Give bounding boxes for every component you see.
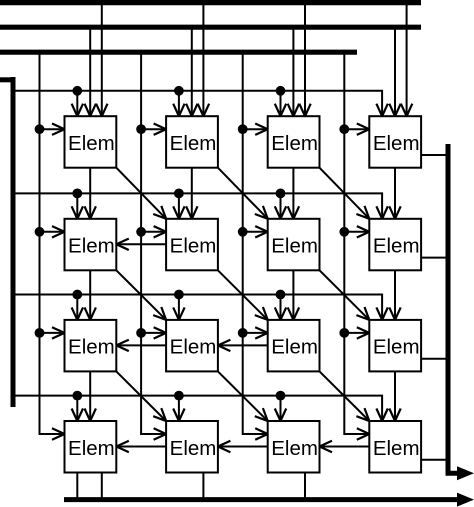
- wire: left input arrow into Elem row3 col3: [243, 332, 267, 334]
- arrowhead: into Elem row2 col4 top: [389, 206, 400, 219]
- wire: column 3 input line from bus 3 with elbow into Elem row4 col3 left: [243, 52, 267, 434]
- svg-text:Elem: Elem: [170, 235, 217, 258]
- junction dot: broadcast line row 3 col 1: [72, 290, 82, 300]
- wire: left input arrow into Elem row2 col3: [243, 231, 267, 233]
- wire: bus 1 feed down into Elem row1 col2: [202, 3, 204, 117]
- arrowhead: into Elem row3 col4 top: [389, 307, 400, 320]
- arrowhead: leftward into Elem row2 col1 right: [116, 239, 129, 250]
- processing element Elem row1 col3: [268, 116, 320, 168]
- arrowhead: broadcast into Elem row1 col1 top: [72, 104, 83, 117]
- wire: Elem row1 col4 right output to right bus: [421, 154, 448, 156]
- arrowhead: diagonal into Elem row4 col3 corner: [255, 408, 268, 421]
- arrowhead: diagonal into Elem row2 col4 corner: [356, 206, 369, 219]
- arrowhead: column 4 input into Elem row4 col4 left: [357, 428, 370, 439]
- bus: bottom horizontal output bus: [64, 497, 458, 502]
- wire: diagonal from Elem row3 col1 to Elem row4 col2: [116, 371, 166, 421]
- wire: diagonal from Elem row1 col3 to Elem row2 col4: [320, 168, 370, 219]
- junction dot: broadcast line row 2 col 2: [174, 189, 184, 199]
- arrowhead: leftward into Elem row4 col2 right: [218, 441, 231, 452]
- wire: leftward link from Elem row2 col2 to Elem row2 col1: [117, 243, 166, 245]
- wire: left input arrow into Elem row1 col3: [243, 128, 267, 130]
- wire: tap from row 4 broadcast line down into Elem row4 col3: [280, 396, 282, 421]
- arrowhead: diagonal into Elem row3 col3 corner: [255, 307, 268, 320]
- svg-text:Elem: Elem: [68, 336, 115, 359]
- arrowhead: diagonal into Elem row4 col4 corner: [356, 408, 369, 421]
- processing element Elem row1 col1: [65, 116, 117, 168]
- wire: bus 1 feed down into Elem row1 col4: [406, 3, 408, 117]
- junction dot: broadcast line row 4 col 1: [72, 391, 82, 401]
- arrowhead: bus 2 feed into Elem row1 col3 top: [288, 104, 299, 117]
- junction dot: column 4 line row 2: [339, 227, 349, 237]
- wire: left input arrow into Elem row3 col1: [40, 332, 64, 334]
- junction dot: broadcast line row 3 col 2: [174, 290, 184, 300]
- svg-text:Elem: Elem: [271, 132, 318, 155]
- arrowhead: leftward into Elem row4 col1 right: [116, 441, 129, 452]
- wire: Elem row2 col1 bottom to Elem row3 col1 top: [89, 270, 91, 320]
- junction dot: broadcast line row 4 col 3: [276, 391, 286, 401]
- arrowhead: broadcast into Elem row2 col3 top: [275, 206, 286, 219]
- wire: left input arrow into Elem row2 col4: [344, 231, 368, 233]
- arrowhead: column 2 input into Elem row4 col2 left: [154, 428, 167, 439]
- processing element Elem row4 col4: [369, 421, 421, 473]
- arrowhead: broadcast into Elem row4 col2 top: [173, 409, 184, 422]
- wire: tap from row 1 broadcast line down into Elem row1 col1: [76, 91, 78, 116]
- arrowhead: broadcast into Elem row3 col2 top: [173, 307, 184, 320]
- junction dot: column 3 line row 1: [238, 124, 248, 134]
- bus: right vertical output bus: [448, 144, 458, 473]
- wire: column 4 input line from bus 3 with elbow into Elem row4 col4 left: [344, 52, 368, 434]
- arrowhead: bus 2 feed into Elem row1 col1 top: [85, 104, 96, 117]
- arrowhead: broadcast into Elem row3 col1 top: [72, 307, 83, 320]
- wire: bus 2 feed down into Elem row1 col4: [394, 27, 396, 116]
- arrowhead: left input into Elem row2 col2: [154, 226, 167, 237]
- wire: bus 1 feed down into Elem row1 col3: [304, 3, 306, 117]
- arrowhead: left input into Elem row1 col3: [255, 124, 268, 135]
- wire: Elem row2 col3 bottom to Elem row3 col3 top: [292, 270, 294, 320]
- junction dot: broadcast line row 3 col 3: [276, 290, 286, 300]
- wire: diagonal from Elem row1 col2 to Elem row2 col3: [218, 168, 268, 219]
- wire: Elem row1 col1 bottom to Elem row2 col1 top: [89, 168, 91, 219]
- arrowhead: leftward into Elem row3 col1 right: [116, 340, 129, 351]
- arrowhead: broadcast into Elem row2 col1 top: [72, 206, 83, 219]
- wire: tap from row 2 broadcast line down into Elem row2 col3: [280, 193, 282, 218]
- wire: Elem row2 col4 bottom to Elem row3 col4 top: [394, 270, 396, 320]
- wire: leftward link from Elem row3 col2 to Elem row3 col1: [117, 344, 166, 346]
- arrowhead: broadcast into Elem row1 col2 top: [173, 104, 184, 117]
- wire: bus 2 feed down into Elem row1 col1: [89, 27, 91, 116]
- arrowhead: left input into Elem row2 col4: [357, 226, 370, 237]
- arrowhead: diagonal into Elem row2 col3 corner: [255, 206, 268, 219]
- wire: leftward link from Elem row4 col3 to Elem row4 col2: [219, 446, 268, 448]
- wire: left input arrow into Elem row3 col4: [344, 332, 368, 334]
- arrowhead: row 4 broadcast into Elem row4 col4 top: [376, 409, 387, 422]
- junction dot: column 2 line row 2: [136, 227, 146, 237]
- arrowhead: row 2 broadcast into Elem row2 col4 top: [376, 206, 387, 219]
- processing element Elem row4 col3: [268, 421, 320, 473]
- junction dot: broadcast line row 4 col 2: [174, 391, 184, 401]
- arrowhead: into Elem row3 col1 top: [85, 307, 96, 320]
- arrowhead: column 3 input into Elem row4 col3 left: [255, 428, 268, 439]
- wire: leftward link from Elem row4 col2 to Elem row4 col1: [117, 446, 166, 448]
- wire: leftward link from Elem row3 col3 to Elem row3 col2: [219, 344, 268, 346]
- svg-text:Elem: Elem: [170, 336, 217, 359]
- wire: tap from row 3 broadcast line down into Elem row3 col1: [76, 295, 78, 320]
- arrowhead: into Elem row2 col2 top: [186, 206, 197, 219]
- arrowhead: left input into Elem row3 col2: [154, 327, 167, 338]
- wire: left input arrow into Elem row1 col1: [40, 128, 64, 130]
- arrowhead: diagonal into Elem row3 col4 corner: [356, 307, 369, 320]
- svg-text:Elem: Elem: [373, 437, 420, 460]
- junction dot: column 1 line row 3: [35, 328, 45, 338]
- arrowhead: diagonal into Elem row2 col2 corner: [153, 206, 166, 219]
- wire: tap from row 4 broadcast line down into Elem row4 col1: [76, 396, 78, 421]
- wire: column 1 input line from bus 3 with elbow into Elem row4 col1 left: [40, 52, 64, 434]
- wire: Elem row3 col4 bottom to Elem row4 col4 top: [394, 371, 396, 421]
- arrowhead: into Elem row4 col1 top: [85, 409, 96, 422]
- processing element Elem row3 col2: [166, 320, 218, 372]
- wire: diagonal from Elem row3 col2 to Elem row4 col3: [218, 371, 268, 421]
- processing element Elem row1 col2: [166, 116, 218, 168]
- arrowhead: leftward into Elem row3 col2 right: [218, 340, 231, 351]
- svg-text:Elem: Elem: [68, 437, 115, 460]
- wire: diagonal from Elem row2 col3 to Elem row3 col4: [320, 270, 370, 320]
- svg-text:Elem: Elem: [170, 437, 217, 460]
- junction dot: column 4 line row 1: [339, 124, 349, 134]
- wire: bus 2 feed down into Elem row1 col3: [292, 27, 294, 116]
- junction dot: column 3 line row 3: [238, 328, 248, 338]
- processing element Elem row3 col3: [268, 320, 320, 372]
- arrowhead: bus 1 feed into Elem row1 col2 top: [198, 104, 209, 117]
- arrowhead: left input into Elem row2 col1: [52, 226, 65, 237]
- wire: Elem row2 col4 right output to right bus: [421, 257, 448, 259]
- arrowhead: left input into Elem row1 col4: [357, 124, 370, 135]
- arrowhead: left input into Elem row1 col2: [154, 124, 167, 135]
- arrowhead: left input into Elem row1 col1: [52, 124, 65, 135]
- wire: row 1 broadcast line from left bus with elbow into Elem row1 col4: [13, 91, 382, 116]
- arrowhead: left input into Elem row3 col1: [52, 327, 65, 338]
- processing element Elem row3 col4: [369, 320, 421, 372]
- wire: tap from row 4 broadcast line down into Elem row4 col2: [178, 396, 180, 421]
- wire: row 2 broadcast line from left bus with elbow into Elem row2 col4: [13, 193, 382, 218]
- junction dot: column 1 line row 2: [35, 227, 45, 237]
- processing element Elem row1 col4: [369, 116, 421, 168]
- junction dot: broadcast line row 2 col 3: [276, 189, 286, 199]
- wire: Elem row4 col4 right output to right bus: [421, 459, 448, 461]
- wire: tap from row 2 broadcast line down into Elem row2 col1: [76, 193, 78, 218]
- arrowhead: bus 1 feed into Elem row1 col4 top: [401, 104, 412, 117]
- bus: top horizontal input bus 1: [0, 0, 421, 5]
- arrowhead: broadcast into Elem row2 col2 top: [173, 206, 184, 219]
- wire: row 4 broadcast line from left bus with elbow into Elem row4 col4: [13, 396, 382, 421]
- wire: Elem row1 col4 bottom to Elem row2 col4 top: [394, 168, 396, 219]
- arrowhead: column 1 input into Elem row4 col1 left: [52, 428, 65, 439]
- wire: bus 2 feed down into Elem row1 col2: [191, 27, 193, 116]
- wire: diagonal from Elem row1 col1 to Elem row2 col2: [116, 168, 166, 219]
- processing element Elem row2 col1: [65, 219, 117, 270]
- arrowhead: broadcast into Elem row3 col3 top: [275, 307, 286, 320]
- wire: tap from row 3 broadcast line down into Elem row3 col3: [280, 295, 282, 320]
- processing element Elem row4 col1: [65, 421, 117, 473]
- svg-text:Elem: Elem: [170, 132, 217, 155]
- arrowhead: bus 2 feed into Elem row1 col4 top: [389, 104, 400, 117]
- wire: tap from row 1 broadcast line down into Elem row1 col2: [178, 91, 180, 116]
- svg-text:Elem: Elem: [373, 132, 420, 155]
- wire: Elem row3 col1 bottom to Elem row4 col1 top: [89, 371, 91, 421]
- wire: left input arrow into Elem row2 col2: [141, 231, 165, 233]
- wire: diagonal from Elem row2 col2 to Elem row3 col3: [218, 270, 268, 320]
- wire: left input arrow into Elem row1 col4: [344, 128, 368, 130]
- processing element Elem row2 col2: [166, 219, 218, 270]
- arrowhead: into Elem row2 col1 top: [85, 206, 96, 219]
- processing element Elem row2 col3: [268, 219, 320, 270]
- arrowhead: right output bus solid arrow: [457, 466, 474, 480]
- arrowhead: into Elem row3 col3 top: [288, 307, 299, 320]
- arrowhead: diagonal into Elem row4 col2 corner: [153, 408, 166, 421]
- wire: diagonal from Elem row3 col3 to Elem row4 col4: [320, 371, 370, 421]
- arrowhead: bus 2 feed into Elem row1 col2 top: [186, 104, 197, 117]
- arrowhead: bottom output bus solid arrow: [457, 493, 474, 507]
- junction dot: broadcast line row 2 col 1: [72, 189, 82, 199]
- wire: Elem row4 col2 bottom output to bottom bus: [202, 473, 204, 500]
- bus: left vertical input bus: [0, 77, 13, 82]
- junction dot: column 2 line row 3: [136, 328, 146, 338]
- junction dot: broadcast line row 1 col 2: [174, 86, 184, 96]
- arrowhead: bus 1 feed into Elem row1 col1 top: [96, 104, 107, 117]
- wire: column 2 input line from bus 3 with elbow into Elem row4 col2 left: [141, 52, 165, 434]
- arrowhead: into Elem row2 col3 top: [288, 206, 299, 219]
- arrowhead: row 3 broadcast into Elem row3 col4 top: [376, 307, 387, 320]
- svg-text:Elem: Elem: [271, 336, 318, 359]
- wire: Elem row4 col3 bottom output to bottom bus: [304, 473, 306, 500]
- junction dot: column 4 line row 3: [339, 328, 349, 338]
- wire: Elem row4 col1 bottom output B to bottom bus: [101, 473, 103, 500]
- wire: left input arrow into Elem row3 col2: [141, 332, 165, 334]
- arrowhead: broadcast into Elem row4 col3 top: [275, 409, 286, 422]
- wire: tap from row 1 broadcast line down into Elem row1 col3: [280, 91, 282, 116]
- svg-text:Elem: Elem: [271, 235, 318, 258]
- wire: leftward link from Elem row4 col4 to Elem row4 col3: [321, 446, 370, 448]
- junction dot: broadcast line row 1 col 1: [72, 86, 82, 96]
- arrowhead: row 1 broadcast into Elem row1 col4 top: [376, 104, 387, 117]
- junction dot: column 1 line row 1: [35, 124, 45, 134]
- wire: tap from row 3 broadcast line down into Elem row3 col2: [178, 295, 180, 320]
- arrowhead: left input into Elem row3 col3: [255, 327, 268, 338]
- bus: horizontal input bus 3: [0, 50, 357, 55]
- arrowhead: broadcast into Elem row4 col1 top: [72, 409, 83, 422]
- wire: left input arrow into Elem row1 col2: [141, 128, 165, 130]
- arrowhead: broadcast into Elem row1 col3 top: [275, 104, 286, 117]
- wire: Elem row4 col1 bottom output A to bottom bus: [76, 473, 78, 500]
- arrowhead: into Elem row4 col4 top: [389, 409, 400, 422]
- junction dot: broadcast line row 1 col 3: [276, 86, 286, 96]
- svg-text:Elem: Elem: [68, 132, 115, 155]
- arrowhead: leftward into Elem row4 col3 right: [320, 441, 333, 452]
- arrowhead: diagonal into Elem row3 col2 corner: [153, 307, 166, 320]
- arrowhead: left input into Elem row2 col3: [255, 226, 268, 237]
- arrowhead: left input into Elem row3 col4: [357, 327, 370, 338]
- wire: Elem row1 col3 bottom to Elem row2 col3 top: [292, 168, 294, 219]
- svg-text:Elem: Elem: [271, 437, 318, 460]
- svg-text:Elem: Elem: [68, 235, 115, 258]
- wire: left input arrow into Elem row2 col1: [40, 231, 64, 233]
- svg-text:Elem: Elem: [373, 336, 420, 359]
- wire: bus 1 feed down into Elem row1 col1: [101, 3, 103, 117]
- bus: horizontal input bus 2: [0, 25, 421, 30]
- svg-text:Elem: Elem: [373, 235, 420, 258]
- processing element Elem row4 col2: [166, 421, 218, 473]
- wire: Elem row3 col4 right output to right bus: [421, 358, 448, 360]
- junction dot: column 2 line row 1: [136, 124, 146, 134]
- processing element Elem row2 col4: [369, 219, 421, 270]
- wire: row 3 broadcast line from left bus with elbow into Elem row3 col4: [13, 295, 382, 320]
- wire: Elem row1 col2 bottom to Elem row2 col2 top: [191, 168, 193, 219]
- junction dot: column 3 line row 2: [238, 227, 248, 237]
- arrowhead: bus 1 feed into Elem row1 col3 top: [299, 104, 310, 117]
- wire: tap from row 2 broadcast line down into Elem row2 col2: [178, 193, 180, 218]
- processing element Elem row3 col1: [65, 320, 117, 372]
- wire: diagonal from Elem row2 col1 to Elem row3 col2: [116, 270, 166, 320]
